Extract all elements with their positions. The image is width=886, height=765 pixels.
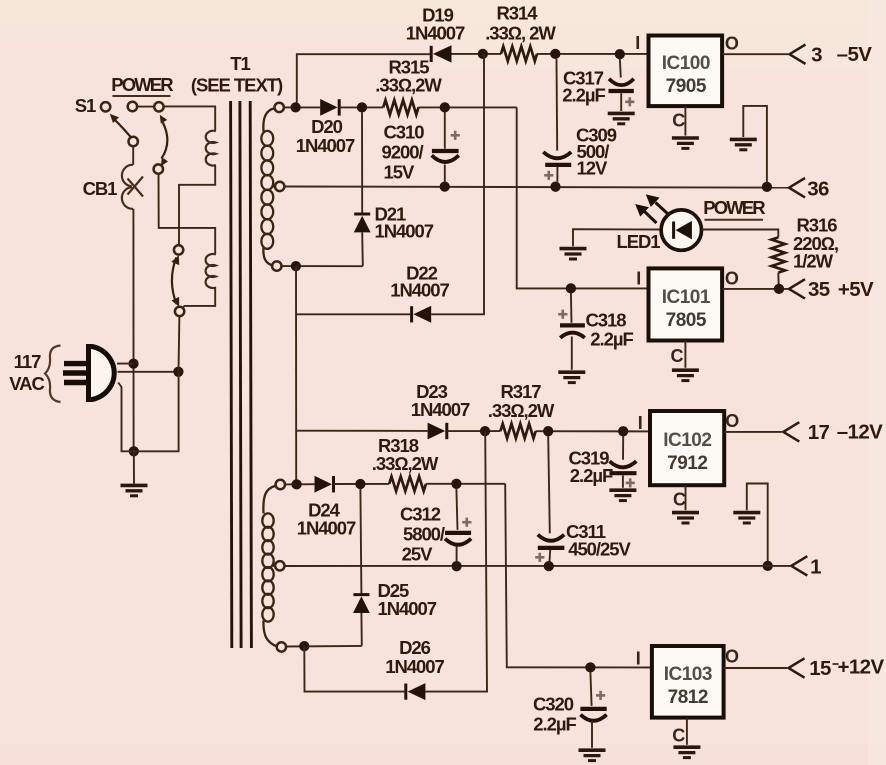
junction C311 top [543, 426, 553, 436]
wire R316 to +5V rail [777, 273, 780, 289]
IC103 regulator 7812 [652, 646, 724, 718]
svg-text:7905: 7905 [666, 76, 707, 97]
svg-text:C: C [673, 490, 686, 510]
wire switch C to primary top [163, 106, 215, 131]
artifact dash after 15 [833, 663, 839, 665]
junction C317 top [615, 49, 625, 59]
svg-text:IC102: IC102 [663, 430, 711, 451]
wire D22 row [296, 313, 410, 315]
secondary S2 top terminal [276, 480, 285, 489]
ground AC input [121, 485, 148, 495]
junction C310 top [440, 102, 450, 112]
LED1 [661, 210, 701, 250]
circuit breaker CB1 [122, 165, 143, 209]
wire IC101 output [722, 288, 787, 290]
resistor R315 [383, 100, 418, 115]
junction S1 bottom node [291, 261, 301, 271]
wire negative branch vertical (to D22 and D23) [295, 266, 297, 484]
svg-text:12V: 12V [577, 158, 608, 179]
svg-text:O: O [725, 411, 739, 431]
capacitor C309 [543, 59, 571, 182]
selector arc arrow F to G [171, 255, 179, 306]
svg-text:O: O [725, 647, 739, 667]
svg-text:7805: 7805 [666, 310, 707, 331]
secondary S1 bottom terminal [272, 261, 281, 270]
wire +5 feed down to IC101 [517, 107, 649, 288]
wire arm D down to CB1 [132, 146, 134, 165]
switch S1 arm D [129, 137, 138, 146]
svg-text:1N4007: 1N4007 [406, 23, 465, 44]
wire 1 rail [284, 565, 790, 567]
transformer primary winding P2 [206, 254, 216, 288]
wire plug neutral to node [118, 371, 179, 373]
plug prongs [63, 364, 88, 383]
svg-text:LED1: LED1 [616, 231, 660, 252]
svg-text:5800/: 5800/ [403, 524, 445, 545]
svg-text:C310: C310 [383, 122, 424, 143]
svg-text:D26: D26 [399, 637, 431, 658]
wire D23 to R317 [447, 430, 501, 432]
wire primary P2 bottom to contact G [182, 287, 215, 309]
svg-text:CB1: CB1 [83, 178, 118, 199]
selector contact F [174, 245, 183, 254]
wire negative rail top (D19 anode to corner) [297, 54, 430, 107]
wire D19 to R314 [452, 53, 502, 55]
ground IC102 common [672, 513, 699, 523]
svg-text:17: 17 [808, 421, 830, 444]
transformer secondary winding S2 (lower) [262, 486, 277, 647]
capacitor C312 [445, 489, 471, 567]
svg-text:C: C [672, 111, 685, 131]
svg-text:2.2µF: 2.2µF [562, 85, 605, 106]
junction 1 rail chassis [763, 561, 773, 571]
wire D26 up to D23 node [425, 431, 487, 691]
wire +12 feed down to IC103 [505, 484, 652, 668]
svg-text:35: 35 [808, 278, 830, 301]
switch S1 contact C [154, 102, 163, 111]
transformer primary winding P1 [206, 131, 216, 166]
svg-text:C: C [671, 346, 684, 366]
ground C319 [609, 490, 636, 500]
svg-text:C318: C318 [585, 310, 626, 331]
diode D22 [412, 306, 432, 323]
svg-text:C320: C320 [533, 694, 574, 715]
junction secondary top node [290, 102, 300, 112]
wire chassis hook (1 rail) [747, 484, 768, 566]
transformer T1 core [231, 101, 252, 648]
ground IC100 common [672, 138, 699, 148]
wire CB1 down to ground junction [132, 209, 134, 451]
svg-text:+12V: +12V [837, 656, 884, 679]
wire junction to ground [133, 451, 135, 484]
wire D21 branch [361, 113, 364, 267]
junction C320 top [585, 662, 595, 672]
wire D24 row [285, 483, 315, 485]
diode D23 [428, 423, 447, 440]
terminal 17 arrow [783, 422, 799, 441]
svg-text:I: I [638, 413, 643, 433]
svg-text:.33Ω,2W: .33Ω,2W [375, 75, 442, 96]
plug body [89, 347, 115, 400]
transformer secondary winding S1 (upper) [261, 108, 275, 265]
diode D19 [431, 45, 451, 62]
svg-text:POWER: POWER [703, 197, 765, 218]
plus C310 [451, 131, 460, 140]
svg-text:1N4007: 1N4007 [375, 221, 434, 242]
wire IC102 common [685, 485, 687, 510]
svg-text:O: O [725, 269, 739, 289]
svg-text:–12V: –12V [837, 421, 883, 444]
ground C318 [558, 372, 585, 382]
capacitor C318 [560, 293, 585, 370]
svg-text:2.2µF: 2.2µF [533, 714, 576, 735]
wire plug bottom loop [118, 372, 178, 452]
svg-text:.33Ω, 2W: .33Ω, 2W [485, 23, 556, 44]
label POWER (LED) [703, 197, 765, 220]
svg-text:1N4007: 1N4007 [296, 135, 355, 156]
svg-text:1/2W: 1/2W [793, 251, 834, 272]
LED emission arrows [635, 194, 668, 223]
switch S1 contact B [128, 102, 137, 111]
junction C312 bottom [451, 561, 461, 571]
plus C320 [596, 691, 605, 700]
wire D26 row [304, 646, 404, 691]
ground C317 [608, 113, 635, 123]
switch arc arrow E to C [160, 115, 168, 166]
wire neutral up to primary [178, 316, 181, 372]
wire LED anode to R316 [702, 230, 779, 238]
ground IC101 common [672, 370, 699, 380]
svg-text:T1: T1 [230, 53, 250, 74]
svg-text:I: I [635, 33, 640, 53]
junction C311 bottom [544, 561, 554, 571]
junction D23/D26 node [480, 426, 490, 436]
svg-text:IC101: IC101 [662, 287, 711, 308]
junction D24/D25 node [355, 479, 365, 489]
svg-text:POWER: POWER [111, 74, 173, 95]
switch S1 arm E [154, 164, 163, 173]
svg-text:2.2µF: 2.2µF [590, 329, 633, 350]
IC102 regulator 7912 [650, 411, 724, 485]
capacitor C311 [538, 436, 565, 566]
terminal 1 arrow [791, 556, 807, 575]
junction C309 bottom [550, 182, 560, 192]
plus C318 [558, 310, 567, 319]
svg-text:IC103: IC103 [664, 664, 712, 685]
svg-text:I: I [636, 269, 641, 289]
wire IC103 common [686, 718, 688, 745]
capacitor C310 [432, 112, 459, 182]
capacitor C317 [609, 58, 634, 111]
svg-text:2.2µF: 2.2µF [570, 465, 613, 486]
secondary S2 center tap terminal [275, 561, 284, 570]
svg-text:C: C [672, 726, 685, 746]
wire 36 rail [284, 187, 788, 188]
capacitor C319 [610, 436, 637, 488]
svg-text:36: 36 [807, 178, 829, 201]
IC100 regulator 7905 [649, 36, 723, 107]
secondary S1 center tap terminal [275, 182, 284, 191]
svg-text:C312: C312 [400, 504, 441, 525]
junction C318 top [566, 283, 576, 293]
svg-text:450/25V: 450/25V [568, 539, 631, 560]
resistor R316 [772, 237, 786, 272]
diode D25 [353, 595, 370, 613]
label POWER (switch) [111, 74, 173, 96]
svg-text:1N4007: 1N4007 [390, 280, 449, 301]
wire IC101 common [684, 341, 686, 368]
wire plug hot prong to junction [117, 363, 134, 365]
junction 36 rail chassis [762, 182, 772, 192]
secondary S1 top terminal [275, 103, 284, 112]
svg-text:VAC: VAC [9, 373, 44, 394]
svg-text:.33Ω,2W: .33Ω,2W [488, 400, 555, 421]
svg-text:1N4007: 1N4007 [297, 518, 356, 539]
secondary S2 bottom terminal [277, 642, 286, 651]
diode D24 [315, 476, 334, 493]
wire positive rail top (circle to D20) [284, 106, 320, 108]
junction S2 top node [291, 479, 301, 489]
junction C309 top [550, 49, 560, 59]
wire D25 branch [360, 489, 361, 646]
plus C309 [544, 171, 553, 180]
svg-text:1N4007: 1N4007 [378, 598, 437, 619]
wire LED cathode to ground [573, 229, 661, 246]
svg-text:15: 15 [809, 657, 831, 680]
svg-text:15V: 15V [384, 162, 415, 183]
wire secondary S2 bottom row [286, 645, 362, 648]
wire R314 to IC100 input [537, 53, 649, 55]
plus C311 [535, 553, 544, 562]
svg-text:S1: S1 [75, 95, 96, 116]
brace AC source [45, 346, 61, 403]
ground LED [560, 249, 587, 259]
svg-text:IC100: IC100 [662, 53, 710, 74]
junction neutral node [173, 367, 183, 377]
capacitor C320 [580, 672, 606, 748]
svg-text:25V: 25V [402, 544, 433, 565]
svg-text:R314: R314 [496, 3, 538, 24]
IC101 regulator 7805 [649, 268, 723, 340]
svg-text:1N4007: 1N4007 [411, 399, 470, 420]
junction C310 bottom [440, 181, 450, 191]
wire secondary S1 bottom to D21 [281, 265, 362, 267]
wire D23 row left [296, 430, 427, 432]
wire primary P1 bottom to arm circle [179, 165, 215, 245]
svg-text:1: 1 [810, 556, 821, 579]
wire R318 to IC103 branch [426, 483, 505, 485]
resistor R318 [389, 477, 426, 492]
diode D20 [320, 99, 339, 116]
junction C319 top [618, 426, 628, 436]
terminal 15 arrow [789, 658, 805, 677]
wire R315 to IC101 branch corner [418, 106, 516, 108]
wire IC102 output [724, 431, 782, 433]
wire R317 to IC102 input [536, 430, 650, 432]
junction C312 top [451, 479, 461, 489]
svg-text:7812: 7812 [668, 687, 708, 708]
switch S1 contact A [101, 102, 110, 111]
plus C319 [626, 478, 635, 487]
svg-text:7912: 7912 [667, 453, 707, 474]
junction R316 output node [774, 284, 784, 294]
switch arrow D to A [110, 114, 131, 137]
ground chassis upper [730, 139, 757, 149]
junction ground node [129, 446, 139, 456]
junction D20/D21 node [357, 102, 367, 112]
junction hot-prong [128, 358, 138, 368]
wire IC100 output [722, 53, 788, 55]
junction S2 bottom node [299, 641, 309, 651]
svg-text:9200/: 9200/ [382, 142, 424, 163]
junction D19/R314/D22 node [478, 49, 488, 59]
diode D21 [354, 214, 371, 232]
wire IC103 output [724, 667, 787, 669]
ground IC103 common [673, 747, 700, 757]
wire D24 to R318 [334, 483, 390, 485]
plus C312 [462, 518, 471, 527]
svg-text:D20: D20 [311, 116, 343, 137]
svg-text:3: 3 [811, 44, 822, 67]
terminal 36 arrow [789, 178, 805, 197]
terminal 35 arrow [789, 279, 805, 298]
svg-text:1N4007: 1N4007 [385, 656, 444, 677]
wire switch B-C [137, 106, 155, 108]
svg-text:.33Ω,2W: .33Ω,2W [372, 453, 439, 474]
plus C317 [625, 97, 634, 106]
terminal 3 arrow [790, 45, 806, 64]
wire chassis hook (36 rail) [743, 106, 767, 187]
svg-text:R317: R317 [500, 381, 541, 402]
wire IC100 common [684, 106, 686, 136]
wire arm E down to primary P2 [159, 174, 216, 254]
selector contact G [175, 307, 184, 316]
svg-text:–5V: –5V [837, 43, 873, 66]
diode D26 [406, 683, 426, 700]
svg-text:O: O [725, 34, 739, 54]
wire D20 to R315 [339, 106, 383, 108]
svg-text:117: 117 [14, 351, 41, 372]
svg-text:I: I [636, 649, 641, 669]
ground C320 [579, 750, 606, 760]
resistor R317 [500, 424, 535, 439]
wire D22 to negative feed vertical [431, 54, 484, 314]
svg-text:(SEE TEXT): (SEE TEXT) [191, 75, 283, 96]
resistor R314 [501, 47, 537, 62]
label 117 VAC [9, 351, 44, 394]
ground chassis lower [733, 513, 760, 523]
svg-text:+5V: +5V [838, 278, 874, 301]
